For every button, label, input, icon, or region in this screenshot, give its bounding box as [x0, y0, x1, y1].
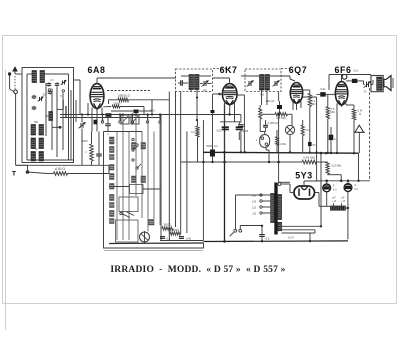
- svg-text:1500: 1500: [149, 111, 155, 113]
- antenna arrow terminal: [13, 67, 18, 74]
- top bus 6F6: [329, 75, 371, 91]
- transformer winding L: [271, 194, 275, 223]
- svg-text:0,1: 0,1: [167, 237, 171, 241]
- label A50: [55, 167, 66, 171]
- terminal T dot: [26, 170, 30, 174]
- diode circle: [285, 114, 294, 152]
- terminal T: [12, 171, 17, 178]
- IF1 wires: [181, 76, 211, 120]
- resistor 05M right: [326, 162, 341, 181]
- label 01M mid: [191, 130, 195, 134]
- IF2 primary coil: [260, 75, 265, 91]
- wire 6K7 plate up: [229, 79, 231, 82]
- cap vert 99: [96, 132, 102, 166]
- wire IF1 to 6K7 cap: [213, 78, 230, 82]
- mains switch wire: [236, 195, 263, 229]
- filter cap stripes: [331, 206, 344, 211]
- IF1 shield box: [176, 69, 213, 92]
- svg-text:0,5: 0,5: [266, 237, 270, 241]
- wire fan c: [75, 100, 77, 122]
- label q2: [305, 128, 309, 132]
- filter cap block: [330, 203, 346, 210]
- label 6A8: [88, 65, 106, 75]
- svg-text:0,5 MΩ: 0,5 MΩ: [332, 164, 343, 168]
- tube 6K7: [222, 84, 237, 106]
- svg-text:100 pF: 100 pF: [266, 99, 275, 103]
- band switch rect2: [116, 220, 139, 242]
- label 6Q7: [289, 65, 307, 75]
- transformer B wire: [277, 92, 280, 183]
- svg-text:0,1: 0,1: [240, 130, 244, 133]
- label pot: [256, 138, 258, 142]
- svg-text:0,05: 0,05: [217, 130, 222, 133]
- wire stub left: [57, 100, 64, 109]
- svg-text:IRRADIO - MODD. « D 57 » «: IRRADIO - MODD. « D 57 » « D 557 »: [110, 265, 285, 275]
- wire A into box: [15, 73, 22, 75]
- pot top wires: [260, 132, 265, 135]
- resistor 05M grid 6F6: [326, 94, 329, 152]
- label 20000: [113, 101, 121, 105]
- svg-text:6,3: 6,3: [354, 188, 358, 191]
- 6A8 pins: [88, 103, 102, 132]
- junctions right: [202, 151, 359, 182]
- tuning cap: [140, 231, 150, 244]
- dashed AVC wire: [107, 90, 150, 92]
- label 6F6: [335, 65, 352, 75]
- cap 50 below: [308, 142, 316, 152]
- bus152 dots: [211, 151, 355, 227]
- trimmer mid: [38, 97, 44, 102]
- cap 05 mains: [259, 225, 270, 242]
- vert 169: [168, 92, 170, 241]
- svg-text:0,1: 0,1: [334, 137, 338, 141]
- output transformer: [371, 76, 383, 92]
- cap 0005: [263, 120, 268, 132]
- vert 181: [180, 92, 182, 235]
- cap 005 left: [238, 115, 244, 153]
- 6Q7 pins: [293, 102, 301, 111]
- small coil sw: [149, 220, 155, 226]
- coil L3b: [39, 138, 44, 149]
- primary taps: [260, 194, 271, 214]
- svg-text:5Y3: 5Y3: [295, 171, 312, 181]
- label 0005: [268, 121, 279, 125]
- label coupling: [320, 87, 326, 91]
- svg-text:0,1: 0,1: [191, 130, 195, 134]
- bus y162: [181, 161, 302, 163]
- IF sec dots: [196, 96, 231, 115]
- svg-text:465: 465: [260, 95, 265, 97]
- svg-text:1: 1: [85, 150, 87, 154]
- IF2 secondary coil: [265, 75, 270, 91]
- resistor 20000: [112, 105, 144, 115]
- heavy bus y152: [203, 151, 358, 154]
- IF1 dashes ext: [213, 68, 231, 70]
- dashed A drop: [14, 76, 16, 90]
- secondary wire fil1: [282, 206, 331, 226]
- contact row: [101, 115, 161, 124]
- IF1 secondary coil: [195, 75, 200, 90]
- svg-text:1: 1: [256, 138, 258, 142]
- svg-text:μF: μF: [341, 195, 345, 199]
- label 01M plate: [311, 99, 315, 106]
- contact c2: [62, 90, 64, 92]
- label 2M: [358, 109, 363, 116]
- HT down: [309, 233, 311, 241]
- coil pair r2: [132, 176, 146, 183]
- 6F6 plate wire: [341, 75, 343, 82]
- label 045M: [303, 155, 315, 159]
- cap mid b: [32, 106, 37, 111]
- tap voltage labels: [252, 195, 257, 215]
- label 05M det: [276, 116, 285, 120]
- resistor 50000: [109, 98, 170, 115]
- lamp volt labels: [333, 188, 358, 192]
- wire fan b: [70, 90, 72, 160]
- label 5Y3: [295, 171, 312, 181]
- trimmer 6F6: [364, 80, 374, 88]
- speaker: [384, 76, 393, 91]
- 6K7 cap b: [236, 122, 243, 140]
- dark wire seg66: [65, 106, 67, 118]
- contact c1: [48, 89, 50, 91]
- cap osc: [105, 118, 111, 132]
- label 005 left: [243, 129, 249, 133]
- label det2: [277, 142, 285, 146]
- vert 175: [175, 92, 177, 228]
- svg-text:0,01: 0,01: [320, 87, 326, 91]
- svg-text:6,3 V: 6,3 V: [288, 237, 294, 240]
- svg-text:Ω: Ω: [359, 112, 361, 116]
- resistor91 label: [81, 141, 88, 143]
- tube 5Y3: [294, 186, 315, 199]
- 6F6 pins: [337, 104, 346, 153]
- label 63v bottom: [288, 237, 294, 240]
- tube 6A8: [90, 84, 104, 110]
- IF2 wires: [241, 76, 295, 105]
- svg-text:50: 50: [35, 148, 38, 151]
- coil L4a: [31, 152, 36, 162]
- cap mid a: [32, 95, 37, 100]
- svg-text:10000: 10000: [81, 141, 88, 143]
- svg-text:6A8: 6A8: [88, 65, 106, 75]
- cathode cap 6F6: [329, 127, 339, 153]
- coil labels: [34, 121, 39, 151]
- cap pair left2: [48, 91, 53, 95]
- IF2 shield box: [245, 69, 281, 92]
- label 100pF: [266, 99, 275, 103]
- 5Y3 wires: [279, 181, 321, 206]
- 6K7 side dot: [213, 93, 223, 96]
- scan border frame: [3, 36, 397, 304]
- bus y240: [160, 240, 203, 242]
- left box small coil: [49, 112, 53, 121]
- trimmer top: [61, 80, 67, 85]
- svg-text:20: 20: [364, 91, 367, 94]
- cap cluster 1: [47, 82, 60, 87]
- svg-text:0,3: 0,3: [305, 128, 309, 132]
- label 05M grid: [330, 107, 334, 114]
- bottom bus heavy: [203, 240, 348, 243]
- band switch mech: [120, 212, 134, 218]
- wire T to resistor: [28, 165, 54, 173]
- svg-text:T: T: [12, 171, 17, 178]
- svg-text:μF: μF: [332, 195, 336, 199]
- secondary wire fil2: [282, 230, 315, 233]
- 6F6 grid cap circle: [342, 74, 347, 79]
- transformer top terminal: [278, 183, 290, 186]
- box bottom wire: [27, 159, 74, 161]
- label 5000cm: [206, 144, 218, 148]
- mains switch: [230, 226, 262, 237]
- coil L2a: [31, 125, 36, 136]
- antenna dot: [8, 72, 14, 91]
- triangle stem: [358, 132, 361, 181]
- svg-text:3: 3: [333, 184, 335, 188]
- resistor 30000: [162, 227, 173, 230]
- coil L4b: [39, 152, 44, 162]
- label 6K7: [220, 65, 238, 75]
- svg-text:6,3: 6,3: [333, 189, 337, 192]
- svg-text:a: a: [107, 134, 109, 136]
- svg-text:50: 50: [43, 94, 46, 97]
- IF1 trimmer: [200, 81, 212, 87]
- resistor 25000: [170, 232, 181, 235]
- vert 2449: [237, 95, 244, 152]
- wire y127: [52, 126, 62, 129]
- filter cap right wire: [346, 207, 348, 209]
- box bottom shadow: [104, 249, 203, 251]
- osc diag wire: [103, 106, 111, 108]
- coupling cap 6Q7-6F6: [317, 92, 335, 97]
- resistor 01M det: [259, 105, 262, 132]
- svg-text:0,45 MΩ: 0,45 MΩ: [303, 155, 315, 159]
- scan fold line: [5, 70, 7, 330]
- 6K7 cap labels: [217, 130, 245, 133]
- label rv91: [85, 150, 87, 154]
- resistor 01M plate: [308, 90, 311, 142]
- svg-text:50: 50: [313, 143, 316, 147]
- 6K7 cap a: [220, 122, 240, 152]
- pilot lamp 2: [344, 181, 356, 240]
- svg-text:0,01: 0,01: [354, 70, 359, 73]
- resistor 05M det: [262, 113, 293, 116]
- bus114 dots: [81, 113, 198, 121]
- svg-text:30000: 30000: [163, 223, 171, 227]
- tiny cap 2125: [211, 110, 215, 113]
- svg-text:A 50 Ω: A 50 Ω: [55, 167, 66, 171]
- svg-text:MΩ: MΩ: [330, 110, 334, 114]
- resistor 01M det2: [276, 130, 279, 152]
- wire fan a: [74, 80, 81, 115]
- coil L1b: [40, 71, 45, 83]
- resistor 01M mid: [196, 120, 199, 162]
- vert dashed 369: [369, 88, 371, 181]
- svg-text:50000 Ω: 50000 Ω: [118, 94, 130, 98]
- wire bus corner up: [108, 166, 110, 174]
- bus y117: [60, 117, 160, 119]
- bottom junctions: [223, 240, 311, 243]
- pilot lamp 1: [323, 181, 335, 207]
- 6K7 pins: [225, 103, 235, 125]
- svg-text:160: 160: [252, 195, 257, 197]
- IF2 trimmer L: [247, 81, 254, 87]
- left box labels: [43, 79, 63, 118]
- 6Q7 plate wires: [302, 90, 316, 181]
- coil pair r1: [132, 143, 146, 150]
- svg-text:125: 125: [252, 207, 257, 209]
- trimmer osc: [79, 115, 86, 166]
- label 30000: [163, 223, 171, 227]
- switch arms: [132, 138, 141, 169]
- middle box outline: [104, 132, 204, 249]
- svg-text:500: 500: [34, 121, 39, 124]
- left bus: [16, 164, 109, 166]
- coil L1a: [32, 71, 37, 83]
- wire terminal down to T bus: [16, 94, 28, 166]
- inner verticals: [46, 74, 69, 160]
- svg-text:5000 cm: 5000 cm: [206, 144, 218, 148]
- osc wire y111: [111, 110, 152, 112]
- 6A8 grid cap wire: [97, 78, 176, 84]
- junction blob mid: [94, 120, 98, 125]
- IF2 dashes ext: [281, 68, 292, 70]
- transformer winding R2: [278, 222, 282, 231]
- svg-text:0,1: 0,1: [50, 79, 54, 82]
- osc cap 136: [134, 110, 139, 114]
- resistor 2M: [346, 105, 356, 153]
- svg-text:6F6: 6F6: [335, 65, 352, 75]
- cap bm1: [160, 237, 171, 241]
- misc tiny labels: [107, 70, 367, 137]
- antenna coil box: [22, 68, 74, 163]
- transformer winding R1: [278, 195, 282, 220]
- band switch rect0: [109, 185, 161, 194]
- bus y181: [317, 180, 370, 182]
- bus y114: [60, 114, 241, 116]
- coil L2b: [39, 125, 44, 136]
- cap osc label: [101, 120, 104, 123]
- IF1 primary coil: [189, 75, 194, 90]
- svg-text:140: 140: [252, 201, 257, 203]
- cap 5000cm: [210, 94, 215, 162]
- svg-text:4: 4: [354, 183, 356, 187]
- plate cap black: [346, 79, 364, 83]
- resistor vert 91: [90, 132, 94, 166]
- cap 100pF: [277, 101, 282, 114]
- vert 161: [160, 115, 162, 241]
- svg-text:0,005 μF: 0,005 μF: [268, 121, 279, 125]
- IF1 cap left: [178, 80, 188, 86]
- svg-text:0,05: 0,05: [186, 237, 192, 241]
- bottom thick bus: [109, 242, 204, 245]
- label 05M right: [332, 164, 343, 168]
- caption IRRADIO MODD: [110, 265, 285, 275]
- label 50000: [118, 94, 130, 98]
- vert 224 heavy: [224, 105, 226, 242]
- svg-text:6Q7: 6Q7: [289, 65, 307, 75]
- switch coil column: [110, 137, 115, 224]
- trimmer box 1: [121, 115, 129, 124]
- cap below 6A8: [106, 113, 112, 117]
- svg-text:5: 5: [60, 95, 62, 98]
- resistor 045M: [302, 160, 328, 164]
- resistor vert q2: [301, 120, 304, 152]
- vert 321: [320, 153, 322, 226]
- triangle: [355, 125, 365, 132]
- svg-text:MΩ: MΩ: [311, 102, 315, 106]
- svg-text:110: 110: [252, 213, 256, 215]
- band switch rect1: [119, 197, 138, 212]
- label 25000: [171, 228, 179, 232]
- box top wire: [27, 74, 69, 160]
- terminal circle: [14, 90, 18, 94]
- svg-text:6K7: 6K7: [220, 65, 238, 75]
- svg-text:0,5 MΩ: 0,5 MΩ: [276, 116, 285, 120]
- trimmer box 2: [131, 115, 139, 124]
- resistor A50: [54, 172, 110, 176]
- pot oval: [260, 135, 270, 148]
- vert 187: [186, 132, 188, 234]
- filter labels: [332, 195, 345, 202]
- box verticals: [117, 115, 160, 241]
- cap bm2: [179, 237, 192, 241]
- coil L3a: [31, 138, 36, 149]
- pot bottom wire: [266, 147, 269, 162]
- IF2 trimmer R: [273, 81, 280, 87]
- svg-text:25000: 25000: [171, 228, 179, 232]
- vert 203: [202, 120, 204, 241]
- tube 6F6: [335, 82, 347, 106]
- tube 6Q7: [290, 83, 302, 104]
- transformer core: [274, 183, 277, 235]
